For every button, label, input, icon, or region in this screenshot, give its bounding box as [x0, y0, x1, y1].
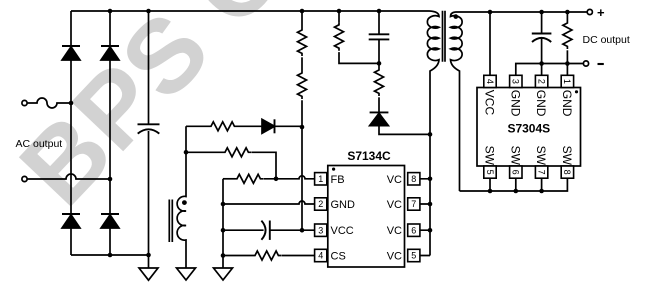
- SW bus dots: [488, 189, 544, 194]
- node clamp: [428, 132, 433, 137]
- U1 pin box 1: [315, 173, 327, 185]
- U1 pin box 3: [315, 224, 327, 236]
- U2 top pin numbers: [485, 79, 572, 84]
- aux winding T2: [177, 126, 186, 268]
- U1 pin labels left: [331, 174, 356, 263]
- svg-text:SW: SW: [534, 146, 548, 166]
- diode D3 bottom-left: [62, 214, 80, 228]
- SW pin wires: [490, 178, 542, 191]
- wire aux diode row: [186, 125, 209, 127]
- svg-text:5: 5: [411, 251, 416, 261]
- IC U1 S7134C body: [328, 166, 405, 268]
- wire right bridge rail: [109, 11, 111, 255]
- transformer T1 core: [443, 11, 446, 62]
- node aux: [184, 150, 189, 155]
- wire FB row with hop: [263, 176, 314, 179]
- resistor R8 clamp: [375, 68, 384, 96]
- label minus: [598, 63, 604, 65]
- U1 pin box 2: [315, 198, 327, 210]
- resistor R4: [209, 122, 237, 131]
- svg-text:8: 8: [562, 170, 572, 175]
- svg-text:3: 3: [511, 79, 521, 84]
- svg-text:VCC: VCC: [483, 90, 497, 116]
- startup divider branch: [301, 11, 303, 28]
- svg-text:1: 1: [562, 79, 572, 84]
- ground G3: [214, 268, 233, 280]
- svg-text:FB: FB: [331, 174, 345, 186]
- diode D5: [237, 119, 302, 133]
- svg-text:SW: SW: [560, 146, 574, 166]
- U2 bottom pin labels: [483, 146, 574, 166]
- U2 top pin boxes: [484, 75, 574, 87]
- U2 top pin labels: [483, 90, 574, 117]
- capacitor C4 VCC row: [223, 221, 315, 240]
- capacitor bulk filter C1: [138, 11, 160, 255]
- svg-text:7: 7: [536, 170, 546, 175]
- U1 pin numbers right: [411, 174, 416, 261]
- wire VCC vertical: [301, 100, 303, 230]
- svg-text:2: 2: [318, 199, 323, 209]
- svg-text:2: 2: [536, 79, 546, 84]
- IC U2 S7304S body: [477, 88, 581, 167]
- svg-text:S7304S: S7304S: [507, 121, 550, 135]
- U1 pin box 6: [408, 224, 420, 236]
- diode D4 bottom-right: [101, 214, 119, 228]
- ground G2: [177, 268, 196, 280]
- U2 bottom pin numbers: [485, 170, 572, 175]
- U1 pin1 marker: [332, 168, 335, 171]
- wire lower AC with hop: [27, 174, 110, 179]
- svg-text:AC output: AC output: [16, 138, 63, 150]
- aux core: [169, 200, 172, 243]
- diode D6 clamp: [370, 112, 430, 134]
- svg-text:6: 6: [411, 225, 416, 235]
- fuse F1: [27, 98, 71, 108]
- svg-text:7: 7: [411, 199, 416, 209]
- transformer T1 primary: [427, 11, 439, 256]
- svg-text:8: 8: [411, 174, 416, 184]
- U1 pin numbers left: [318, 174, 323, 261]
- snubber capacitor C2: [369, 11, 390, 68]
- transformer T1 secondary: [451, 12, 463, 191]
- left bus to ground: [222, 179, 224, 268]
- aux phase dot: [182, 200, 187, 205]
- svg-text:S7134C: S7134C: [347, 149, 391, 163]
- resistor R6 FB row: [223, 178, 235, 180]
- junction dots left section: [69, 9, 151, 258]
- U2 pin2 wire: [541, 64, 543, 76]
- U2 pin1 wire: [566, 64, 568, 76]
- svg-text:VC: VC: [387, 225, 402, 237]
- node dots startup: [300, 9, 305, 233]
- svg-text:1: 1: [318, 174, 323, 184]
- diode D1 top-left: [62, 46, 80, 60]
- snubber resistor R3: [338, 11, 340, 23]
- svg-text:4: 4: [485, 79, 495, 84]
- svg-text:GND: GND: [560, 90, 574, 117]
- svg-text:SW: SW: [508, 146, 522, 166]
- svg-text:BPS C: BPS C: [0, 0, 305, 227]
- AC terminal upper: [22, 100, 27, 105]
- svg-text:5: 5: [485, 170, 495, 175]
- svg-text:VCC: VCC: [331, 225, 354, 237]
- wire GND row with hop: [223, 201, 315, 204]
- svg-text:CS: CS: [331, 251, 346, 263]
- svg-text:4: 4: [318, 251, 323, 261]
- U1 pin labels right: [387, 174, 402, 263]
- svg-text:VC: VC: [387, 251, 402, 263]
- T1 phase dot: [454, 14, 459, 19]
- capacitor C5 output: [532, 12, 552, 64]
- VC bus dots: [428, 177, 433, 233]
- U1 pin box 8: [408, 173, 420, 185]
- wire bottom rail: [71, 254, 149, 256]
- resistor R9 output: [566, 12, 568, 21]
- resistor R1: [298, 28, 307, 56]
- svg-text:SW: SW: [483, 146, 497, 166]
- wire + rail secondary: [456, 11, 588, 13]
- wire top rail: [71, 10, 430, 12]
- U2 pin1 marker: [575, 90, 578, 93]
- U1 VC pin wires: [420, 179, 430, 256]
- AC terminal lower: [22, 176, 27, 181]
- U2 pin4 wire: [489, 12, 491, 75]
- svg-text:VC: VC: [387, 199, 402, 211]
- svg-text:VC: VC: [387, 174, 402, 186]
- diode D2 top-right: [101, 46, 119, 60]
- svg-text:GND: GND: [331, 199, 356, 211]
- svg-text:+: +: [597, 5, 605, 20]
- left bus dots: [221, 202, 226, 258]
- svg-text:GND: GND: [508, 90, 522, 117]
- - terminal: [583, 61, 588, 66]
- svg-text:DC output: DC output: [583, 34, 630, 46]
- U2 bottom pin boxes: [484, 166, 574, 178]
- wire left bridge rail: [70, 11, 72, 255]
- wire: [301, 57, 303, 71]
- svg-text:GND: GND: [534, 90, 548, 117]
- U1 pin box 5: [408, 249, 420, 261]
- node snubber: [337, 9, 382, 66]
- + terminal: [587, 9, 592, 14]
- svg-text:3: 3: [318, 225, 323, 235]
- wire SW bus: [460, 178, 568, 191]
- + rail dots: [488, 10, 570, 66]
- wire GND rail: [516, 64, 584, 76]
- resistor R5 middle: [186, 151, 223, 153]
- node FB: [274, 177, 279, 182]
- ground G1: [139, 255, 158, 280]
- U1 pin box 4: [315, 249, 327, 261]
- resistor R7 CS row: [223, 255, 253, 257]
- U1 pin box 7: [408, 198, 420, 210]
- svg-text:6: 6: [511, 170, 521, 175]
- resistor R2: [298, 71, 307, 99]
